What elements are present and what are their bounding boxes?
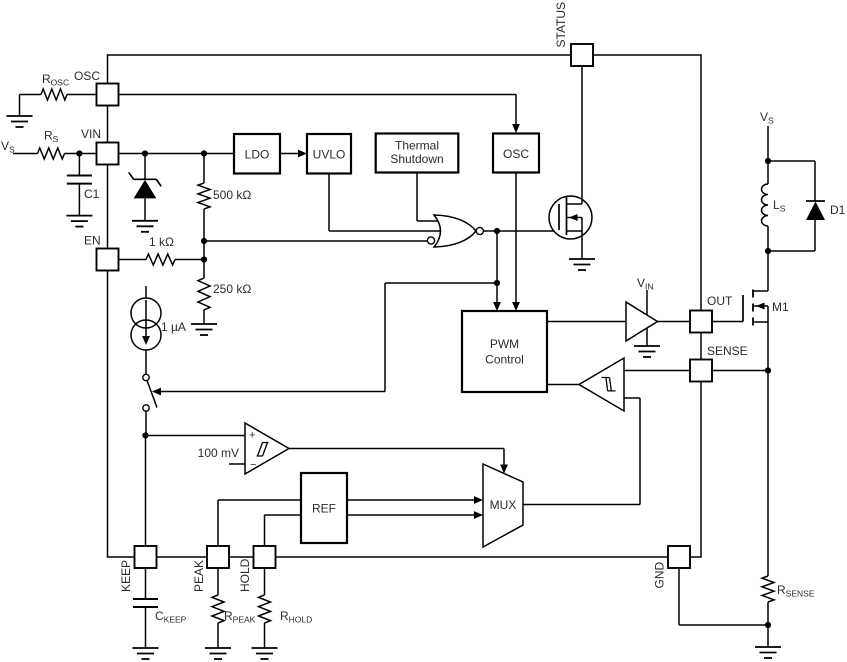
transistor M1 channel [752, 290, 754, 326]
node comparator input junction [142, 432, 148, 438]
wire gate output [483, 230, 558, 232]
wire 250k to ground [203, 310, 205, 324]
wire comparator output to MUX [289, 449, 504, 466]
wire VIN rail [119, 153, 235, 155]
node 500k junction [201, 150, 207, 156]
svg-text:STATUS: STATUS [554, 2, 568, 48]
label OSC block [503, 147, 529, 161]
wire RSENSE ground stub [767, 625, 769, 647]
svg-text:VIN: VIN [637, 276, 654, 292]
wire REF out B [347, 514, 474, 516]
svg-text:VIN: VIN [81, 127, 101, 141]
pin SENSE [690, 360, 712, 382]
svg-text:Shutdown: Shutdown [390, 152, 443, 166]
wire comparator output to PWM [547, 384, 579, 386]
svg-text:LDO: LDO [245, 148, 270, 162]
svg-text:C1: C1 [84, 187, 100, 201]
block LDO [234, 134, 280, 174]
wire switch to KEEP [145, 411, 148, 546]
wire divider node link [203, 241, 205, 260]
arrow OSC line into PWM [512, 302, 520, 311]
diode D1 [806, 201, 825, 220]
switch S1 [143, 374, 157, 411]
svg-text:OSC: OSC [503, 147, 529, 161]
wire D1 bottom [768, 220, 815, 251]
svg-text:PWM: PWM [490, 337, 519, 351]
svg-text:+: + [249, 430, 255, 442]
svg-text:1 kΩ: 1 kΩ [149, 235, 174, 249]
label VIN pin [81, 127, 101, 141]
ground (C1) [66, 216, 92, 227]
wire buffer ground stub [646, 328, 648, 347]
svg-text:ROSC: ROSC [42, 72, 69, 88]
label 1k [149, 235, 174, 249]
label UVLO [313, 148, 346, 162]
svg-text:HOLD: HOLD [238, 558, 252, 592]
wire RSENSE to ground node [767, 602, 769, 625]
pin HOLD [254, 546, 276, 568]
label CKEEP [155, 609, 187, 625]
svg-text:SENSE: SENSE [707, 344, 748, 358]
transistor M1 source [753, 306, 768, 371]
buffer U4 [626, 302, 658, 341]
label RS [44, 129, 59, 145]
transistor Q1 source [567, 218, 583, 260]
transistor Q1 gate [558, 204, 560, 230]
transistor M1 body arrow [753, 303, 768, 310]
node gate-PWM branch [494, 280, 500, 286]
wire comparator plus input [146, 435, 246, 437]
label 500k [213, 188, 251, 202]
wire comparator minus stub [229, 463, 245, 465]
svg-text:GND: GND [653, 562, 667, 589]
wire 500k top [203, 154, 205, 184]
label ROSC [42, 72, 69, 88]
svg-text:1 µA: 1 µA [161, 320, 186, 334]
wire PEAK to RPEAK [217, 568, 219, 595]
label 250k [213, 282, 251, 296]
ground (250k) [191, 324, 217, 335]
pin PEAK [207, 546, 229, 568]
capacitor C1 [67, 176, 92, 184]
wire CKEEP to ground [145, 607, 147, 648]
wire REF out A [347, 499, 474, 501]
IC boundary [108, 55, 702, 557]
wire SENSE to comparator [624, 370, 690, 372]
arrow into MUX top [500, 465, 508, 474]
wire D1 top [768, 161, 815, 201]
node divider bottom [201, 256, 207, 262]
wire 500k to node [203, 209, 205, 241]
wire PEAK to REF [218, 500, 301, 546]
svg-text:RS: RS [44, 129, 59, 145]
wire ROSC to OSC pin [67, 94, 97, 96]
transistor Q1 channel [566, 197, 568, 235]
label VS (left) [1, 139, 15, 155]
block REF [301, 473, 347, 543]
resistor 1k [146, 254, 175, 265]
label VIN (buffer) [637, 276, 654, 292]
zener diode D2 anode [134, 180, 157, 199]
wire LS bottom stub [767, 226, 769, 251]
resistor RPEAK [212, 595, 224, 623]
wire VIN stub [646, 290, 648, 316]
pin OSC [97, 84, 119, 106]
wire OSC pin to OSC block [119, 95, 517, 126]
label PEAK pin [192, 560, 206, 592]
pin EN [97, 249, 119, 271]
arrow LDO to UVLO [298, 150, 307, 158]
resistor ROSC [41, 89, 67, 100]
node LS bottom [765, 248, 771, 254]
node divider top [201, 238, 207, 244]
label STATUS pin [554, 2, 568, 48]
label RHOLD [280, 609, 312, 625]
transistor Q1 body [549, 196, 592, 239]
wire VS stub [767, 126, 769, 161]
ground (RSENSE) [755, 647, 781, 658]
wire switch control [161, 283, 497, 392]
wire KEEP to CKEEP [145, 568, 147, 599]
svg-text:RPEAK: RPEAK [224, 609, 256, 625]
transistor Q1 drain [567, 66, 583, 204]
label Thermal Shutdown [390, 139, 443, 167]
node zener junction [142, 150, 148, 156]
resistor 250k [198, 278, 210, 310]
label RPEAK [224, 609, 256, 625]
svg-text:VS: VS [1, 139, 15, 155]
label MUX [490, 498, 517, 512]
wire LDO to UVLO [280, 153, 299, 155]
svg-text:M1: M1 [772, 300, 789, 314]
label LDO [245, 148, 270, 162]
node gate output [494, 228, 500, 234]
wire zener to ground [144, 198, 146, 220]
svg-text:VS: VS [760, 110, 774, 126]
svg-text:OSC: OSC [74, 69, 100, 83]
wire RHOLD to ground [264, 623, 266, 648]
block OSC [493, 134, 539, 173]
svg-text:Thermal: Thermal [395, 139, 439, 153]
label 100 mV [198, 446, 239, 460]
label GND pin [653, 562, 667, 589]
wire GND pin to ground rail [679, 568, 768, 625]
svg-text:D1: D1 [830, 203, 846, 217]
node RSENSE bottom [765, 622, 771, 628]
wire SENSE to M1 source [712, 370, 768, 372]
logic gate U3 (NOR) [434, 215, 476, 247]
label PWM Control [485, 337, 524, 367]
svg-text:100 mV: 100 mV [198, 446, 239, 460]
resistor 500k [198, 183, 210, 209]
wire Thermal Shutdown to gate [417, 173, 439, 222]
wire HOLD to RHOLD [264, 568, 266, 595]
ground (CKEEP) [133, 648, 159, 659]
wire RPEAK to ground [217, 623, 219, 648]
label M1 [772, 300, 789, 314]
pin OUT [690, 311, 712, 333]
capacitor CKEEP [133, 599, 158, 607]
wire UVLO to gate [329, 174, 440, 232]
wire M1 source to RSENSE [767, 371, 769, 577]
resistor RHOLD [259, 595, 271, 623]
wire OSC block to PWM [515, 173, 517, 303]
arrow REF out A [474, 496, 483, 504]
wire EN comparator line [204, 240, 428, 242]
transistor Q1 body arrow [567, 214, 583, 221]
zener diode D2 cathode [129, 172, 162, 186]
resistor RSENSE [762, 576, 774, 602]
svg-text:−: − [250, 459, 256, 471]
wire zener stem [144, 154, 146, 180]
arrow into OSC block [512, 124, 520, 133]
svg-text:250 kΩ: 250 kΩ [213, 282, 251, 296]
label OUT pin [707, 294, 733, 308]
op-amp U5 (current comparator) [579, 358, 624, 411]
pin GND [668, 546, 690, 568]
inductor LS [762, 184, 768, 226]
current source I1 [131, 298, 161, 350]
svg-text:MUX: MUX [490, 498, 517, 512]
pin VIN [97, 143, 119, 165]
wire OUT to M1 gate [712, 295, 743, 322]
arrow REF out B [474, 511, 483, 519]
wire EN to 1k [119, 259, 147, 261]
label EN pin [84, 234, 101, 248]
node C1 junction [76, 150, 82, 156]
label C1 [84, 187, 100, 201]
node M1 source [765, 367, 771, 373]
label REF [312, 502, 336, 516]
wire MUX output [523, 398, 640, 505]
svg-text:UVLO: UVLO [313, 148, 346, 162]
op-amp U2 (100 mV comparator) [245, 423, 289, 474]
label D1 [830, 203, 846, 217]
svg-text:OUT: OUT [707, 294, 733, 308]
gate output bubble [476, 227, 483, 234]
wire ROSC ground to resistor [20, 95, 42, 117]
label OSC pin [74, 69, 100, 83]
wire 1k to divider [175, 259, 204, 261]
svg-text:RHOLD: RHOLD [280, 609, 312, 625]
block UVLO [307, 134, 351, 174]
svg-text:500 kΩ: 500 kΩ [213, 188, 251, 202]
svg-text:EN: EN [84, 234, 101, 248]
ground (RPEAK) [205, 648, 231, 659]
svg-text:RSENSE: RSENSE [777, 583, 815, 599]
label VS (top right) [760, 110, 774, 126]
wire VS to RS [13, 153, 38, 155]
wire HOLD to REF [265, 515, 302, 546]
svg-text:PEAK: PEAK [192, 560, 206, 592]
label RSENSE [777, 583, 815, 599]
svg-text:CKEEP: CKEEP [155, 609, 187, 625]
wire PWM to buffer [547, 321, 626, 323]
label LS [773, 198, 786, 214]
label KEEP pin [119, 560, 133, 592]
block PWM Control [462, 311, 547, 392]
svg-text:LS: LS [773, 198, 786, 214]
wire 250k top [203, 260, 205, 279]
svg-text:Control: Control [485, 353, 524, 367]
multiplexer MUX [483, 464, 523, 547]
svg-text:KEEP: KEEP [119, 560, 133, 592]
wire C1 stem [78, 154, 80, 176]
block Thermal Shutdown [376, 134, 459, 173]
ground (zener) [132, 221, 158, 232]
svg-text:REF: REF [312, 502, 336, 516]
wire buffer to OUT pin [658, 321, 691, 323]
label HOLD pin [238, 558, 252, 592]
pin STATUS [571, 44, 593, 66]
wire gate output to PWM [496, 231, 498, 302]
wire current source stub [145, 286, 147, 299]
resistor RS [38, 148, 65, 159]
wire RS to VIN pin [65, 153, 97, 155]
ground (Q1 source) [569, 259, 595, 270]
label SENSE pin [707, 344, 748, 358]
arrow switch control [152, 388, 161, 396]
ground (buffer) [634, 346, 660, 357]
transistor M1 drain [753, 251, 768, 291]
ground (ROSC) [7, 116, 33, 127]
wire current source to switch [145, 350, 147, 374]
wire LS top stub [767, 161, 769, 184]
label 1uA [161, 320, 186, 334]
pin KEEP [135, 546, 157, 568]
node LS top [765, 158, 771, 164]
arrow gate line into PWM [493, 302, 501, 311]
gate input bubble [427, 237, 434, 244]
wire C1 to ground [78, 184, 80, 216]
ground (RHOLD) [252, 648, 278, 659]
